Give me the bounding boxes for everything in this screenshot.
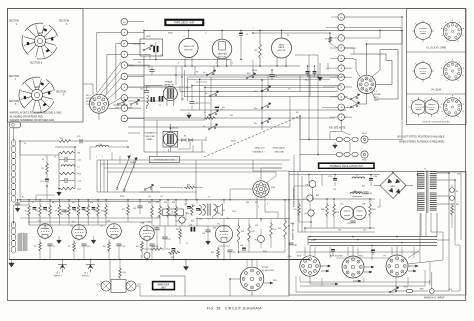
socket AVS: [330, 254, 364, 278]
resistor R27 vertical: [179, 226, 182, 244]
svg-text:R2: R2: [25, 211, 27, 213]
motor M2 CAPSTAN: [212, 30, 232, 62]
svg-text:V4 : EL84: V4 : EL84: [431, 89, 442, 91]
wire osc feed vertical: [290, 55, 318, 155]
wire SW2 feed: [128, 43, 140, 45]
wire HT rail power: [309, 175, 380, 187]
svg-text:PLAYBACK \: PLAYBACK \: [253, 151, 265, 154]
svg-text:C15: C15: [70, 226, 73, 228]
svg-text:C21a: C21a: [232, 211, 236, 213]
capacitor C left margin: [15, 200, 20, 212]
svg-text:R3: R3: [325, 39, 327, 41]
svg-text:C36a: C36a: [288, 256, 292, 258]
svg-text:C24: C24: [151, 231, 154, 233]
resistor R42 screen: [270, 219, 277, 248]
svg-text:C22: C22: [168, 239, 171, 241]
valve V3A: [140, 222, 155, 241]
resistor R32: [164, 200, 169, 226]
capacitor C22: [162, 226, 170, 244]
capacitor C8a: [215, 107, 223, 111]
capacitor C28: [189, 225, 246, 251]
switch SW1g: [144, 184, 154, 190]
motor M3 WIND BACK: [272, 30, 292, 66]
svg-text:C32: C32: [333, 189, 336, 191]
wire deck lower rail: [133, 59, 231, 61]
connector bowtie pair at record head: [178, 135, 206, 141]
capacitor C24: [151, 226, 160, 234]
svg-text:UNIT: UNIT: [161, 288, 167, 290]
svg-text:V1, V2 & V3 : EF86: V1, V2 & V3 : EF86: [426, 48, 447, 50]
resistor R34: [186, 204, 193, 216]
pin number dots right pillar: [341, 27, 342, 118]
capacitor C3: [140, 86, 163, 107]
wire erase head feed: [113, 86, 166, 105]
resistor R38: [321, 203, 328, 217]
svg-text:R33: R33: [187, 184, 190, 186]
switch SW5: [129, 99, 141, 109]
socket SK4: [297, 255, 320, 276]
resistor R30: [148, 200, 153, 226]
lamp housing: [111, 279, 126, 293]
label AMPLIFIER UNIT: [152, 281, 175, 291]
power unit boundary: [289, 172, 466, 296]
label P2 FITTED INTO SK2: [149, 156, 179, 162]
resistor R3 pillar: [253, 33, 338, 48]
svg-text:C17: C17: [100, 226, 103, 228]
resistor R20: [102, 200, 108, 225]
wire bias rail 2: [184, 75, 338, 97]
capacitor C27: [184, 204, 191, 209]
rectifier MR1: [374, 173, 413, 199]
wire eq to switch: [47, 147, 75, 200]
svg-text:SW1: SW1: [231, 141, 237, 143]
wire socket bottom mesh: [296, 262, 430, 292]
wire B+ rail: [20, 200, 289, 202]
svg-text:WAFER LAYOUTS FOR SWITCHES SW1: WAFER LAYOUTS FOR SWITCHES SW1 & SW5: [10, 112, 62, 115]
valve data box: [407, 9, 467, 125]
potentiometer P5: [255, 236, 265, 248]
wire SK1 rotary drops: [230, 168, 282, 219]
switch SW1f blade: [123, 158, 138, 192]
resistor R12: [65, 200, 71, 225]
wire deck distribution rail: [128, 63, 338, 75]
svg-text:R11: R11: [103, 246, 106, 248]
switch SW1a blade: [246, 73, 256, 79]
capacitor C30: [288, 243, 296, 247]
more tiny labels amp: [24, 143, 163, 204]
capacitor C16: [77, 136, 82, 144]
svg-text:WIND ON \: WIND ON \: [255, 148, 266, 150]
capacitor C10: [40, 175, 49, 186]
resistor R33a horizontal: [184, 184, 203, 189]
label ERASE HEAD: [165, 81, 175, 87]
wire socket arrows: [310, 265, 418, 285]
svg-text:SW5: SW5: [34, 85, 40, 89]
svg-text:C8: C8: [24, 143, 26, 145]
label SK3 FITTED WITH P3: [86, 95, 94, 106]
label PLAYBACK RECORD HEAD: [145, 132, 157, 141]
svg-text:C31: C31: [369, 193, 372, 195]
wire eq drops from rails: [90, 147, 134, 168]
input transformer TR1: [18, 233, 28, 251]
svg-text:R3: R3: [208, 115, 210, 117]
switch SW2 (motor switch): [140, 36, 163, 56]
svg-text:R11: R11: [230, 115, 233, 117]
svg-text:C30: C30: [169, 254, 172, 256]
wire pillar L-drops to SK3: [97, 32, 121, 99]
wire deck nested runs: [182, 66, 345, 120]
valve V4: [215, 224, 232, 243]
erase head H1: [163, 86, 177, 106]
switch near pillar UP: [350, 94, 360, 108]
valve V2: [72, 222, 87, 240]
resistor R28 horizontal: [168, 251, 180, 259]
wire right column to power: [331, 17, 402, 107]
svg-text:\ RECORD: \ RECORD: [274, 152, 285, 154]
svg-text:5: 5: [232, 63, 233, 65]
svg-text:WIND-ON: WIND-ON: [184, 46, 194, 48]
resistor R3: [204, 115, 216, 120]
socket SK1: [357, 75, 375, 93]
svg-text:R6: R6: [46, 211, 48, 213]
valve V1: [38, 221, 53, 239]
svg-text:P4 WITH SK6: P4 WITH SK6: [262, 270, 274, 272]
svg-text:FIG. 38 CIRCUIT DIAGRAM: FIG. 38 CIRCUIT DIAGRAM: [207, 307, 262, 311]
svg-text:P.B. SEE NOTE: P.B. SEE NOTE: [329, 127, 346, 129]
svg-text:R9: R9: [296, 112, 298, 114]
resistor R33: [172, 200, 177, 226]
svg-text:C11: C11: [78, 160, 81, 162]
wire head to switch: [170, 137, 206, 152]
svg-text:C27: C27: [184, 204, 187, 206]
potentiometer P6: [306, 181, 316, 199]
svg-text:C14: C14: [60, 214, 63, 216]
fuse FS1: [396, 287, 428, 293]
resistor R18: [94, 200, 100, 225]
svg-text:R18: R18: [94, 211, 97, 213]
svg-text:SW1c: SW1c: [120, 196, 125, 198]
svg-text:FITTED: FITTED: [86, 98, 94, 100]
svg-text:C31a: C31a: [290, 223, 294, 225]
second eq row: [90, 144, 128, 147]
pin number dots left pillar: [124, 32, 125, 119]
svg-text:C13: C13: [78, 181, 81, 183]
socket P3: [384, 255, 409, 277]
switch S5b: [205, 91, 219, 97]
svg-text:R35: R35: [211, 252, 214, 254]
resistor R2: [25, 200, 31, 225]
svg-text:SW2a: SW2a: [168, 33, 173, 35]
wire top right corner: [253, 17, 402, 66]
svg-text:R34: R34: [186, 213, 189, 215]
svg-text:R8: R8: [78, 153, 80, 155]
svg-text:R5: R5: [22, 197, 24, 199]
svg-text:T2: T2: [208, 197, 210, 199]
wire output stage rails: [152, 200, 230, 226]
ground symbol mid: [183, 260, 188, 271]
resistor R9: [55, 200, 61, 225]
resistor R44: [119, 260, 126, 280]
ground small mid: [187, 112, 192, 118]
svg-text:WITH: WITH: [86, 101, 92, 103]
pin arrows power sockets: [321, 270, 416, 273]
ground bus: [9, 259, 310, 261]
capacitor C26: [192, 205, 200, 211]
svg-text:(OUTPUT): (OUTPUT): [168, 214, 177, 216]
labels power extra: [311, 186, 366, 243]
resistor R40: [369, 203, 376, 217]
socket SK1 rotary: [253, 181, 276, 197]
component labels tape deck: [148, 63, 298, 115]
rotary switch wafer SW1: [9, 21, 70, 65]
wire output stage rail 218: [196, 218, 290, 220]
wire jack feeds: [300, 120, 350, 154]
potentiometer P4: [176, 217, 186, 226]
svg-text:N1: N1: [456, 191, 458, 193]
svg-text:R44: R44: [123, 272, 126, 274]
svg-text:PLAYBACK/: PLAYBACK/: [145, 132, 157, 135]
wire record bus verticals: [97, 160, 290, 192]
switch S4b: [254, 103, 271, 110]
svg-text:R22: R22: [122, 209, 125, 211]
valve V1-V3 symbol: [412, 20, 434, 42]
capacitor C35: [347, 221, 356, 225]
svg-text:AS VIEWED FROM REAR END.: AS VIEWED FROM REAR END.: [10, 115, 44, 118]
mains transformer T1: [418, 168, 437, 213]
svg-text:C29: C29: [255, 225, 258, 227]
svg-text:SECTION: SECTION: [59, 21, 70, 23]
coupling capacitors row: [33, 207, 96, 210]
svg-text:R16: R16: [90, 202, 93, 204]
wire amp bottom boundary: [160, 276, 289, 296]
wire amp resistor drops: [29, 217, 106, 225]
valve V5 oscillator: [340, 204, 366, 220]
svg-text:SECTION: SECTION: [56, 92, 67, 94]
loudspeaker LS1: [218, 204, 226, 216]
svg-text:RECORD: RECORD: [146, 136, 156, 138]
svg-text:MOTOR: MOTOR: [184, 49, 193, 51]
ground V4 grid: [206, 238, 211, 245]
svg-text:HEAD: HEAD: [147, 138, 153, 141]
svg-text:V5 & V6 : ECC83 & ECC83: V5 & V6 : ECC83 & ECC83: [423, 121, 450, 123]
wire motor return bus: [128, 42, 300, 75]
wire deck to amp drops: [128, 127, 290, 156]
wire SK5 leads: [230, 260, 273, 297]
potentiometer P3a: [141, 253, 151, 259]
svg-text:R7: R7: [42, 168, 44, 170]
svg-text:6: 6: [267, 203, 268, 205]
more tiny labels deck: [138, 62, 311, 117]
svg-text:C38: C38: [294, 245, 297, 247]
svg-text:R33: R33: [172, 202, 175, 204]
svg-text:C5a: C5a: [181, 99, 184, 101]
switch S5c: [204, 110, 219, 116]
svg-text:L2a: L2a: [222, 107, 225, 109]
svg-text:P7: P7: [304, 199, 306, 201]
svg-text:R30: R30: [148, 202, 151, 204]
wire loops at SK1: [345, 30, 403, 104]
svg-text:P5: P5: [255, 240, 257, 242]
valve V4 symbol: [412, 60, 434, 82]
wire power left pots: [294, 186, 311, 228]
switch SW1e blade: [116, 156, 131, 190]
svg-text:S4a: S4a: [254, 91, 257, 93]
svg-text:C1a: C1a: [138, 62, 141, 64]
svg-text:R4: R4: [36, 211, 38, 213]
switch before fuse: [389, 287, 399, 293]
svg-text:WIND: WIND: [279, 44, 285, 46]
svg-text:C36: C36: [338, 230, 341, 232]
svg-text:POWER & OSCILLATOR UNIT: POWER & OSCILLATOR UNIT: [330, 165, 364, 168]
svg-text:AMPLIFIER: AMPLIFIER: [158, 284, 170, 287]
svg-text:R47: R47: [456, 204, 459, 206]
wire tape deck internal rails: [144, 60, 310, 148]
wire bottom misc: [101, 260, 185, 297]
svg-text:F2: F2: [287, 35, 289, 37]
wire V4 stage: [186, 160, 224, 226]
wire S4 chain link: [262, 75, 268, 130]
svg-text:MAINS A.C. INPUT: MAINS A.C. INPUT: [424, 297, 445, 300]
svg-text:\ WIND BACK: \ WIND BACK: [272, 147, 286, 150]
capacitor C34: [369, 175, 378, 181]
svg-text:C20: C20: [148, 196, 151, 198]
svg-text:C2: C2: [148, 67, 150, 69]
wire T1 secondary: [437, 173, 461, 240]
svg-text:R38: R38: [321, 209, 324, 211]
svg-text:S4b: S4b: [254, 108, 257, 110]
svg-text:SK 3: SK 3: [86, 95, 92, 97]
svg-text:R32: R32: [164, 202, 167, 204]
svg-text:C35: C35: [347, 223, 350, 225]
svg-text:R12: R12: [72, 202, 75, 204]
svg-text:L2b: L2b: [99, 144, 102, 146]
jack SK11: [336, 133, 368, 143]
jack JK2 INPUT 2: [82, 260, 95, 278]
wire right feeds down: [448, 240, 460, 291]
svg-text:P8: P8: [305, 214, 307, 216]
capacitor C2: [149, 66, 154, 75]
cathode drops to bus: [40, 238, 230, 259]
wire oscillator rails: [305, 199, 375, 228]
svg-text:R7: R7: [68, 246, 70, 248]
valve V5 V6 base diagram: [441, 95, 464, 117]
lamp LP2: [126, 281, 141, 291]
svg-text:5b: 5b: [205, 93, 207, 95]
svg-text:R13: R13: [308, 72, 311, 74]
svg-text:0.05: 0.05: [157, 217, 160, 219]
svg-text:LS1: LS1: [222, 210, 225, 212]
svg-text:FITTED: FITTED: [374, 94, 382, 96]
resistor R31: [156, 200, 161, 226]
resistor R14: [74, 200, 80, 225]
potentiometer P7: [304, 195, 314, 201]
svg-text:SK8: SK8: [273, 280, 277, 282]
wafer layout inset box: [8, 9, 84, 123]
svg-text:TAPE DECK UNIT: TAPE DECK UNIT: [174, 21, 195, 25]
terminal strip TS1 (deck connector, left): [121, 18, 132, 121]
svg-text:R16: R16: [84, 211, 87, 213]
ground eq network: [57, 189, 62, 196]
svg-text:3: 3: [178, 63, 179, 65]
svg-text:C18: C18: [133, 208, 136, 210]
tape deck unit boundary wire: [144, 30, 402, 120]
svg-text:R42: R42: [274, 229, 277, 231]
svg-text:0.1: 0.1: [186, 243, 188, 245]
svg-text:3: 3: [258, 207, 259, 209]
svg-text:SECTION 6: SECTION 6: [30, 63, 43, 65]
svg-text:C37: C37: [363, 230, 366, 232]
svg-text:R26: R26: [213, 228, 216, 230]
svg-text:5a: 5a: [203, 72, 205, 74]
svg-text:C6: C6: [288, 89, 290, 91]
wire left margin drop: [9, 128, 11, 260]
wire amp mid rails extra: [14, 141, 161, 225]
svg-text:C16: C16: [155, 246, 158, 248]
resistor R43 tall: [278, 200, 286, 252]
svg-text:S4c: S4c: [254, 123, 257, 125]
svg-text:R2: R2: [196, 72, 198, 74]
svg-text:WHEN STEREO PLAYBACK IS REQUIR: WHEN STEREO PLAYBACK IS REQUIRED.: [399, 141, 445, 144]
capacitor C7 bias: [306, 66, 310, 77]
svg-text:C2a: C2a: [140, 89, 143, 91]
wire power top feeds: [253, 160, 309, 175]
wire input rail: [14, 139, 29, 222]
svg-text:SW1b: SW1b: [252, 70, 257, 72]
capacitor C30 blob: [169, 248, 175, 256]
ground symbol main: [9, 260, 15, 268]
svg-text:C21: C21: [160, 196, 163, 198]
switch S4c: [254, 118, 271, 125]
svg-text:VS1: VS1: [457, 174, 461, 176]
svg-text:R40: R40: [372, 209, 375, 211]
svg-text:C10: C10: [40, 181, 43, 183]
svg-text:MOTOR: MOTOR: [218, 56, 226, 58]
cathode network V2: [68, 241, 90, 259]
wire amp top rail: [20, 141, 128, 200]
svg-text:SW1: SW1: [37, 31, 43, 35]
jack JK1 INPUT 1: [54, 260, 67, 278]
svg-text:C9: C9: [195, 103, 197, 105]
wafer note text: [10, 112, 62, 123]
svg-text:R20: R20: [102, 211, 105, 213]
capacitor C9: [189, 102, 197, 106]
wire bias rail 3: [128, 105, 346, 118]
wire tape deck bottom edge: [144, 120, 205, 152]
label JK3 OUTPUT: [163, 209, 184, 216]
capacitor C6: [269, 70, 277, 80]
resistor R16: [84, 200, 90, 225]
capacitor C14: [60, 210, 67, 216]
svg-text:SK2: SK2: [305, 80, 308, 82]
resistor R39: [333, 203, 339, 217]
svg-text:C25: C25: [233, 252, 236, 254]
svg-text:R3: R3: [34, 246, 36, 248]
svg-text:C29: C29: [226, 218, 229, 220]
resistor R12a: [58, 138, 72, 143]
svg-text:P3: P3: [141, 256, 143, 258]
mains connector: [420, 272, 453, 293]
coil L4: [350, 191, 363, 195]
resistor R22: [122, 200, 129, 222]
resistor R7: [42, 155, 49, 175]
svg-text:R31: R31: [156, 202, 159, 204]
svg-text:↓: ↓: [253, 27, 254, 30]
capacitor C8 bias: [305, 66, 322, 82]
labels amp resistors extra: [22, 162, 135, 228]
wire bias to power unit: [294, 116, 341, 172]
cathode network V1: [34, 241, 55, 259]
svg-text:C12: C12: [44, 226, 47, 228]
